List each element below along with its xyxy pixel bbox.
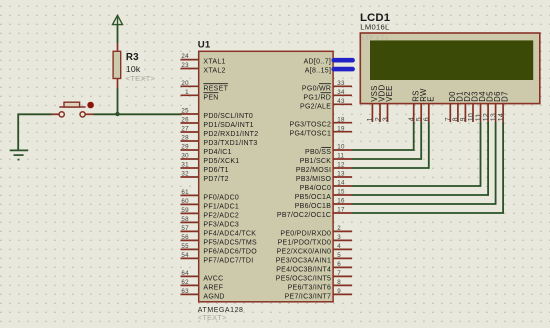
svg-text:AREF: AREF <box>203 284 223 291</box>
svg-text:PE3/OC3A/AIN1: PE3/OC3A/AIN1 <box>276 257 331 264</box>
svg-text:PE0/PDI/RXD0: PE0/PDI/RXD0 <box>280 230 331 237</box>
LCD1 pin 3 VEE <box>382 85 394 122</box>
svg-text:55: 55 <box>181 243 189 250</box>
svg-text:6: 6 <box>424 117 431 121</box>
svg-text:1: 1 <box>367 117 374 121</box>
svg-text:33: 33 <box>337 80 345 87</box>
svg-text:56: 56 <box>181 234 189 241</box>
U1 pin 12 PB2/MOSI <box>296 162 352 174</box>
svg-text:58: 58 <box>181 216 189 223</box>
svg-text:20: 20 <box>181 80 189 87</box>
LCD1 pin 6 E <box>424 96 436 122</box>
svg-text:17: 17 <box>337 207 345 214</box>
U1 pin 9 PE7/IC3/INT7 <box>285 288 352 300</box>
U1 pin 32 PD7/T2 <box>181 171 229 183</box>
svg-text:29: 29 <box>181 144 189 151</box>
U1 pin 54 PF7/ADC7/TDI <box>181 252 254 264</box>
svg-text:U1: U1 <box>198 40 211 51</box>
U1 pin 19 PG4/TOSC1 <box>290 125 353 137</box>
svg-text:D7: D7 <box>501 91 510 102</box>
svg-text:31: 31 <box>181 162 189 169</box>
LCD1 pin 4 RS <box>409 90 421 122</box>
svg-text:PEN: PEN <box>203 94 218 101</box>
wire U1 PB6 to LCD1 D6 <box>352 122 496 204</box>
LCD1 pin 10 D3 <box>468 91 480 122</box>
svg-text:59: 59 <box>181 207 189 214</box>
power symbol (VCC arrow) <box>113 15 123 24</box>
U1 pin 55 PF6/ADC6/TDO <box>181 243 258 255</box>
svg-text:PD0/SCL/INT0: PD0/SCL/INT0 <box>203 113 253 120</box>
U1 pin 18 PG3/TOSC2 <box>290 116 353 128</box>
svg-text:23: 23 <box>181 62 189 69</box>
push button <box>52 102 94 117</box>
svg-text:PB2/MOSI: PB2/MOSI <box>296 167 331 174</box>
U1 pin 14 PB4/OC0 <box>300 180 352 192</box>
LCD1 pin 8 D1 <box>453 91 465 122</box>
ground <box>10 150 28 159</box>
svg-text:27: 27 <box>181 126 189 133</box>
U1 pin 30 PD5/XCK1 <box>181 153 240 165</box>
U1 pin 33 PG0/WR <box>302 80 352 92</box>
wire U1 PB7 to LCD1 D7 <box>352 122 503 213</box>
svg-text:LM016L: LM016L <box>360 23 389 32</box>
U1 pin 1 PEN <box>181 89 219 101</box>
LCD1 pin 5 RW <box>416 88 428 122</box>
svg-text:PF4/ADC4/TCK: PF4/ADC4/TCK <box>203 230 256 237</box>
U1 pin 6 PE4/OC3B/INT4 <box>276 261 352 273</box>
svg-text:8: 8 <box>453 117 460 121</box>
svg-text:16: 16 <box>337 198 345 205</box>
svg-text:3: 3 <box>382 117 389 121</box>
U1 pin 17 PB7/OC2/OC1C <box>277 207 352 219</box>
resistor R3 <box>113 43 155 88</box>
U1 pin 23 XTAL2 <box>181 62 226 74</box>
svg-text:34: 34 <box>337 89 345 96</box>
svg-text:E: E <box>426 96 435 101</box>
svg-text:PG1/RD: PG1/RD <box>303 94 331 101</box>
svg-text:62: 62 <box>181 279 189 286</box>
wire U1 PB0 to LCD1 RS <box>352 122 414 150</box>
LCD1 pin 9 D2 <box>460 91 472 122</box>
svg-text:PD5/XCK1: PD5/XCK1 <box>203 158 239 165</box>
LCD screen <box>370 40 533 80</box>
U1 pin 2 PE0/PDI/RXD0 <box>280 225 352 237</box>
U1 pin 59 PF2/ADC2 <box>181 207 240 219</box>
svg-text:PF1/ADC1: PF1/ADC1 <box>203 203 239 210</box>
LCD1 pin 2 VDD <box>375 84 387 122</box>
svg-text:PD2/RXD1/INT2: PD2/RXD1/INT2 <box>203 131 258 138</box>
U1 pin 5 PE3/OC3A/AIN1 <box>276 252 352 264</box>
U1 pin 20 RESET <box>181 80 229 92</box>
U1 pin 15 PB5/OC1A <box>295 189 352 201</box>
svg-text:2: 2 <box>375 117 382 121</box>
svg-text:9: 9 <box>337 288 341 295</box>
svg-text:PF3/ADC3: PF3/ADC3 <box>203 221 239 228</box>
svg-text:13: 13 <box>490 113 497 121</box>
svg-text:10: 10 <box>337 144 345 151</box>
svg-text:PD3/TXD1/INT3: PD3/TXD1/INT3 <box>203 140 257 147</box>
svg-text:R3: R3 <box>126 52 139 63</box>
svg-text:57: 57 <box>181 225 189 232</box>
svg-text:PE6/T3/INT6: PE6/T3/INT6 <box>288 284 332 291</box>
svg-text:13: 13 <box>337 171 345 178</box>
svg-text:43: 43 <box>337 98 345 105</box>
svg-text:5: 5 <box>337 252 341 259</box>
wire U1 PB1 to LCD1 RW <box>352 122 421 159</box>
U1 pin 28 PD3/TXD1/INT3 <box>181 135 258 147</box>
U1 pin 8 PE6/T3/INT6 <box>288 279 352 291</box>
svg-text:63: 63 <box>181 288 189 295</box>
svg-text:8: 8 <box>337 279 341 286</box>
svg-text:32: 32 <box>181 171 189 178</box>
svg-text:12: 12 <box>337 162 345 169</box>
U1 pin 29 PD4/IC1 <box>181 144 232 156</box>
svg-text:PE2/XCK0/AIN0: PE2/XCK0/AIN0 <box>277 248 332 255</box>
junction node <box>115 112 119 116</box>
svg-text:<TEXT>: <TEXT> <box>198 313 227 322</box>
svg-text:14: 14 <box>498 113 505 121</box>
svg-text:2: 2 <box>337 225 341 232</box>
svg-text:PD6/T1: PD6/T1 <box>203 167 228 174</box>
svg-text:61: 61 <box>181 189 189 196</box>
svg-text:PE7/IC3/INT7: PE7/IC3/INT7 <box>285 293 332 300</box>
svg-text:<TEXT>: <TEXT> <box>361 33 390 42</box>
svg-text:AGND: AGND <box>203 293 224 300</box>
svg-text:PG2/ALE: PG2/ALE <box>300 103 331 110</box>
svg-text:9: 9 <box>460 117 467 121</box>
svg-text:AVCC: AVCC <box>203 275 223 282</box>
U1 pin 43 PG2/ALE <box>300 98 352 110</box>
svg-text:PE5/OC3C/INT5: PE5/OC3C/INT5 <box>276 275 331 282</box>
svg-text:18: 18 <box>337 116 345 123</box>
svg-text:PE4/OC3B/INT4: PE4/OC3B/INT4 <box>276 266 331 273</box>
svg-text:XTAL1: XTAL1 <box>203 59 225 66</box>
svg-text:30: 30 <box>181 153 189 160</box>
svg-text:28: 28 <box>181 135 189 142</box>
svg-text:PF6/ADC6/TDO: PF6/ADC6/TDO <box>203 248 257 255</box>
svg-text:PB3/MISO: PB3/MISO <box>296 176 332 183</box>
svg-text:1: 1 <box>185 89 189 96</box>
U1 pin 64 AVCC <box>181 270 224 282</box>
U1 pin 31 PD6/T1 <box>181 162 229 174</box>
U1 pin 58 PF3/ADC3 <box>181 216 240 228</box>
U1 pin 13 PB3/MISO <box>296 171 352 183</box>
svg-text:PB1/SCK: PB1/SCK <box>300 158 332 165</box>
svg-text:7: 7 <box>445 117 452 121</box>
svg-text:12: 12 <box>483 113 490 121</box>
bus AD[0..7] <box>304 59 353 66</box>
svg-text:A[8..15]: A[8..15] <box>305 68 331 75</box>
U1 pin 56 PF5/ADC5/TMS <box>181 234 257 246</box>
svg-text:11: 11 <box>475 114 482 122</box>
svg-text:RESET: RESET <box>203 85 228 92</box>
svg-text:VEE: VEE <box>385 85 394 101</box>
U1 pin 34 PG1/RD <box>303 89 352 101</box>
U1 pin 62 AREF <box>181 279 224 291</box>
svg-text:PF7/ADC7/TDI: PF7/ADC7/TDI <box>203 257 253 264</box>
svg-text:6: 6 <box>337 261 341 268</box>
svg-text:54: 54 <box>181 252 189 259</box>
svg-text:19: 19 <box>337 125 345 132</box>
svg-text:26: 26 <box>181 117 189 124</box>
svg-text:PD4/IC1: PD4/IC1 <box>203 149 231 156</box>
U1 pin 10 PB0/SS <box>305 144 352 156</box>
svg-text:4: 4 <box>337 243 341 250</box>
svg-text:10k: 10k <box>126 64 141 74</box>
svg-text:PG0/WR: PG0/WR <box>302 85 331 92</box>
svg-text:PD7/T2: PD7/T2 <box>203 176 228 183</box>
svg-text:AD[0..7]: AD[0..7] <box>304 59 332 66</box>
svg-text:XTAL2: XTAL2 <box>203 68 225 75</box>
wire U1 PB2 to LCD1 E <box>352 122 429 168</box>
svg-text:60: 60 <box>181 198 189 205</box>
svg-text:PF5/ADC5/TMS: PF5/ADC5/TMS <box>203 239 257 246</box>
svg-text:4: 4 <box>409 117 416 121</box>
U1 pin 3 PE1/PDO/TXD0 <box>278 234 352 246</box>
svg-text:PE1/PDO/TXD0: PE1/PDO/TXD0 <box>278 239 332 246</box>
svg-text:3: 3 <box>337 234 341 241</box>
U1 pin 16 PB6/OC1B <box>295 198 352 210</box>
wire VCC to R3 <box>117 25 119 43</box>
LCD1 pin 13 D6 <box>490 91 502 122</box>
LCD1 pin 12 D5 <box>483 91 495 122</box>
wire U1 PB5 to LCD1 D5 <box>352 122 488 195</box>
microcontroller U1 ATMEGA128 body <box>199 51 333 301</box>
svg-text:24: 24 <box>181 53 189 60</box>
LCD1 pin 14 D7 <box>498 91 510 122</box>
LCD1 pin 7 D0 <box>445 91 457 122</box>
svg-text:5: 5 <box>416 117 423 121</box>
U1 pin 57 PF4/ADC4/TCK <box>181 225 257 237</box>
bus A[8..15] <box>305 68 353 75</box>
svg-text:64: 64 <box>181 270 189 277</box>
wire button to U1 PD0 <box>94 113 182 115</box>
svg-text:PB5/OC1A: PB5/OC1A <box>295 194 332 201</box>
LCD display LCD1 LM016L body <box>360 33 540 104</box>
U1 pin 25 PD0/SCL/INT0 <box>181 108 254 120</box>
svg-text:11: 11 <box>337 153 344 160</box>
U1 pin 63 AGND <box>181 288 225 300</box>
svg-text:PF2/ADC2: PF2/ADC2 <box>203 212 239 219</box>
svg-text:PF0/ADC0: PF0/ADC0 <box>203 194 239 201</box>
svg-text:25: 25 <box>181 108 189 115</box>
svg-text:PB0/SS: PB0/SS <box>305 149 331 156</box>
svg-text:PD1/SDA/INT1: PD1/SDA/INT1 <box>203 122 253 129</box>
LCD1 pin 11 D4 <box>475 91 487 122</box>
svg-text:10: 10 <box>468 113 475 121</box>
svg-text:PB7/OC2/OC1C: PB7/OC2/OC1C <box>277 212 331 219</box>
U1 pin 61 PF0/ADC0 <box>181 189 240 201</box>
wire R3 to node <box>117 88 119 114</box>
U1 pin 24 XTAL1 <box>181 53 226 65</box>
svg-text:PG4/TOSC1: PG4/TOSC1 <box>290 131 332 138</box>
U1 pin 11 PB1/SCK <box>300 153 352 165</box>
svg-text:<TEXT>: <TEXT> <box>126 74 156 83</box>
U1 pin 27 PD2/RXD1/INT2 <box>181 126 259 138</box>
svg-text:15: 15 <box>337 189 345 196</box>
LCD1 pin 1 VSS <box>367 85 379 122</box>
wire button to ground <box>18 114 51 150</box>
svg-text:7: 7 <box>337 270 341 277</box>
svg-text:PB4/OC0: PB4/OC0 <box>300 185 332 192</box>
svg-text:PG3/TOSC2: PG3/TOSC2 <box>290 122 332 129</box>
wire U1 PB4 to LCD1 D4 <box>352 122 481 186</box>
U1 pin 26 PD1/SDA/INT1 <box>181 117 254 129</box>
svg-text:14: 14 <box>337 180 345 187</box>
U1 pin 60 PF1/ADC1 <box>181 198 240 210</box>
U1 pin 4 PE2/XCK0/AIN0 <box>277 243 352 255</box>
U1 pin 7 PE5/OC3C/INT5 <box>276 270 352 282</box>
svg-text:PB6/OC1B: PB6/OC1B <box>295 203 332 210</box>
